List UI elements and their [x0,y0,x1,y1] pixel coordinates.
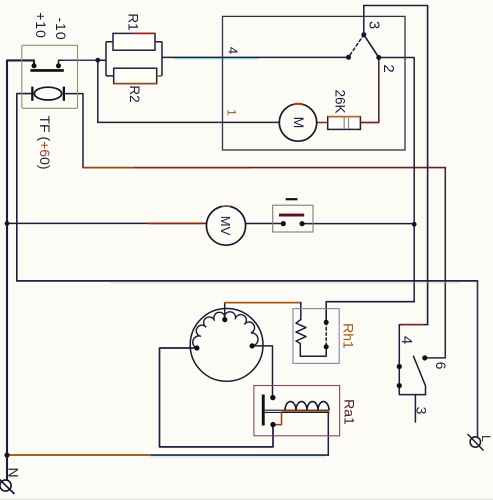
wire: blue link to Rh1 [326,302,414,323]
wire: cyan fringes [150,456,326,458]
wire: compressor right to Ra1 top contact [252,346,272,398]
switch Rh1 dashed contact [325,322,327,347]
switch S1 blade solid to pin2 [364,35,379,58]
thermostat TF contact dots [32,63,37,68]
junction dot neutral bottom [4,453,9,458]
wire: live drop to L terminal [477,281,479,437]
wire: MV line red segment [148,222,204,224]
svg-text:4: 4 [398,336,415,344]
svg-text:3: 3 [365,21,382,29]
wire: thermostat to right junction [302,223,414,225]
svg-text:4: 4 [225,47,240,54]
switch S2 blade [414,356,426,394]
wire: compressor left loop to Ra1 bottom contact [160,348,274,447]
terminal L [470,437,480,447]
svg-text:M: M [291,117,307,129]
svg-text:R1: R1 [125,13,140,30]
svg-text:-10: -10 [53,17,69,40]
wire: neutral bus left vertical with top branch to TF contact [7,60,34,480]
svg-text:L: L [479,435,493,442]
resistor R2 [114,68,157,83]
thermostat contact dots [281,221,286,226]
protector ellipse TF [34,87,61,100]
relay Ra1 coil [285,402,329,411]
switch S1 dashed to pin4 contact [349,35,364,58]
component box Ra1 [254,386,340,436]
Rh1 contact dots [324,320,329,325]
protector end bars [31,87,33,101]
motor MV circle [206,206,245,245]
compressor terminal dots [194,345,199,350]
svg-text:3: 3 [414,407,430,415]
svg-text:R2: R2 [127,85,142,102]
wire: Ra1 coil right down to neutral bottom line [327,412,329,455]
svg-text:2: 2 [380,64,397,72]
component box TF [22,45,78,108]
wire: pin4 line y57.4 [162,56,349,58]
motor M red tick [294,103,303,106]
wire: top run pin3 [364,6,428,325]
svg-text:N: N [6,467,22,477]
svg-text:26K: 26K [332,89,347,113]
wire: feeder drop to contact 6 [425,168,446,358]
wire: M to 26K leads [317,122,328,124]
wire: live horizontal y281 [17,280,478,282]
wire: blue tint TF to R junction [63,59,97,61]
wire: pin2 right then down to MV junction and Rh1 [379,58,414,302]
wire: red tint on jog [403,324,423,326]
compressor motor circle [190,309,263,382]
wire: TF protector left to long bottom-live line to L terminal [17,94,32,281]
wire: TF contact right to R1R2 junction [59,60,107,66]
switch S1 pin dots [361,32,366,37]
svg-text:1: 1 [224,109,238,116]
switch S2 contact dots [397,364,402,369]
compressor winding left [193,312,225,348]
R1R2 right bus [155,42,162,76]
wire: switch node drop [363,6,365,35]
thermostat box (door switch) [273,205,313,232]
thermostat TF contact bar [30,69,63,72]
svg-text:6: 6 [433,362,449,370]
R1R2 left bus [106,42,114,76]
wire: TF protector right down to red feeder line [65,94,83,168]
component box Rh1 [293,309,339,364]
junction dot MV line right [412,222,417,227]
wire: stub terminal 3 bottom [414,395,416,422]
wire: pin2 down to 26K [361,58,379,123]
terminal N [0,480,11,491]
wire: MV line left [7,222,206,224]
wire: compressor top to Rh1 (orange) [224,303,226,320]
motor M circle [279,104,316,141]
svg-text:Rh1: Rh1 [341,323,357,349]
relay Ra1 armature bar [262,395,265,426]
component box: selector/motor unit [223,16,406,150]
svg-text:MV: MV [218,216,233,236]
wire: jog to bottom switch [399,325,427,395]
MV orange tick [222,205,230,207]
relay Ra1 contact dots [270,395,275,400]
bottom scan edge [0,498,493,500]
resistor 26K [328,117,361,130]
relay Ra1 orange rail [282,410,330,412]
relay Ra1 red link [273,412,282,424]
junction dot MV line left [5,221,10,226]
wire: MV to thermostat [246,223,284,225]
svg-text:+10: +10 [33,12,49,39]
relay Ra1 rail [265,410,330,412]
svg-text:TF (+60): TF (+60) [37,115,53,169]
svg-text:Ra1: Ra1 [342,399,358,425]
compressor winding right [224,312,258,346]
thermostat bar [279,214,304,217]
resistor Rh1 zigzag [296,320,326,357]
resistor R1 [113,33,155,50]
thermostat actuator dash [286,198,298,200]
wire: red feeder horizontal y167.5 [83,167,135,169]
wire: orange overlay bottom neutral [8,454,150,456]
wire: junction down to motor pin 1 line [98,60,280,122]
node A junction dot R1R2 left [95,58,100,63]
wire: bottom neutral line y455 [7,454,328,456]
